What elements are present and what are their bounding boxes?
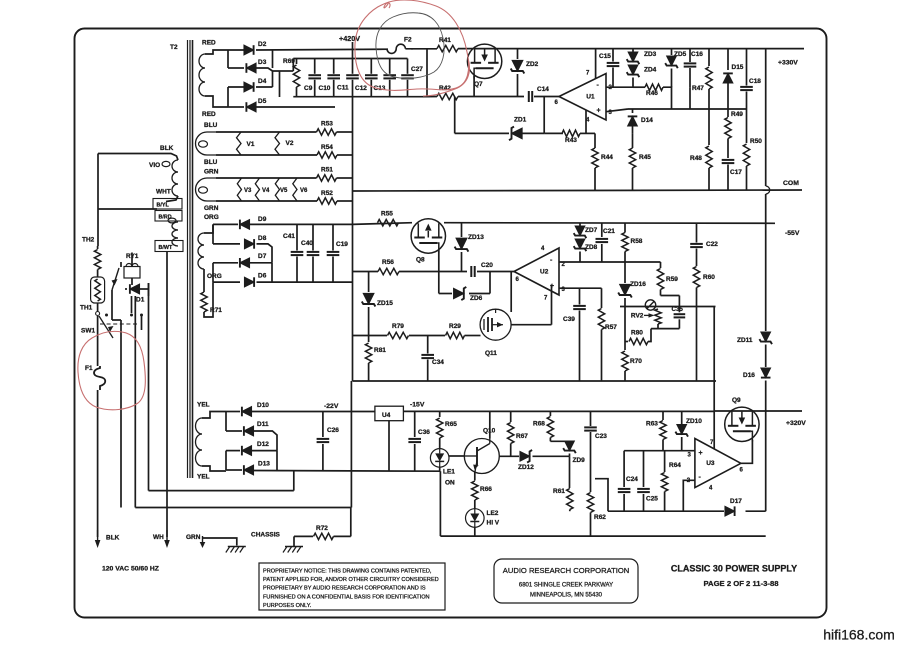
heater V6 bbox=[293, 178, 297, 201]
svg-text:R61: R61 bbox=[553, 488, 565, 495]
zener ZD6 loop bbox=[439, 272, 490, 294]
label C12 bbox=[355, 85, 367, 92]
svg-text:FURNISHED ON A CONFIDENTIAL BA: FURNISHED ON A CONFIDENTIAL BASIS FOR ID… bbox=[263, 594, 430, 600]
label C19 bbox=[336, 241, 348, 248]
svg-text:PROPRIETARY BY AUDIO RESEARCH: PROPRIETARY BY AUDIO RESEARCH CORPORATIO… bbox=[263, 586, 426, 592]
zener ZD8 bbox=[574, 239, 587, 262]
svg-text:D5: D5 bbox=[258, 98, 267, 105]
label V2 bbox=[286, 140, 294, 147]
op-amp U2 +- marks bbox=[550, 257, 554, 290]
label R50 bbox=[750, 138, 762, 145]
thermistor TH2 bbox=[94, 246, 100, 277]
label R69 bbox=[283, 58, 295, 65]
ground chassis 2 bbox=[283, 541, 303, 553]
label R68 bbox=[533, 421, 545, 428]
company addr2 bbox=[530, 593, 603, 599]
resistor R59 bbox=[657, 262, 663, 296]
wire RY1 contact col bbox=[132, 296, 142, 330]
resistor R43 bbox=[562, 130, 580, 136]
wire D8 to mid bus bbox=[257, 244, 273, 263]
capacitor C36 bbox=[408, 411, 421, 471]
svg-text:ORG: ORG bbox=[204, 214, 219, 221]
wire -15V rail bbox=[403, 410, 714, 412]
capacitor C41 bbox=[291, 224, 304, 282]
label V1 bbox=[247, 141, 255, 148]
label ZD13 bbox=[468, 234, 484, 241]
svg-text:R47: R47 bbox=[692, 85, 704, 92]
label R48 bbox=[690, 155, 702, 162]
svg-text:ZD15: ZD15 bbox=[377, 300, 393, 307]
resistor R72 bbox=[314, 533, 334, 539]
svg-text:120 VAC 50/60 HZ: 120 VAC 50/60 HZ bbox=[102, 566, 159, 573]
resistor R44 bbox=[592, 148, 598, 168]
wire LE1 down bbox=[439, 467, 441, 471]
svg-text:SW1: SW1 bbox=[81, 328, 95, 335]
svg-text:AUDIO RESEARCH CORPORATION: AUDIO RESEARCH CORPORATION bbox=[503, 566, 629, 575]
svg-text:C20: C20 bbox=[481, 262, 493, 269]
svg-text:ZD4: ZD4 bbox=[644, 67, 657, 74]
label B/YL box bbox=[153, 199, 182, 210]
svg-text:+330V: +330V bbox=[778, 60, 798, 67]
label ORG top bbox=[204, 214, 219, 221]
label C18 bbox=[749, 78, 761, 85]
label D3 bbox=[258, 59, 267, 66]
svg-text:U1: U1 bbox=[586, 94, 595, 101]
wire R61 jog bbox=[595, 479, 608, 512]
wire pin2 row bbox=[606, 86, 633, 88]
svg-text:ZD9: ZD9 bbox=[573, 457, 586, 464]
label C21 bbox=[603, 228, 615, 235]
label RV2 bbox=[631, 313, 644, 320]
svg-text:Q9: Q9 bbox=[732, 397, 741, 404]
wire F2 to R41 bbox=[411, 48, 437, 50]
MOSFET Q11 bbox=[480, 309, 511, 340]
svg-text:RV2: RV2 bbox=[631, 313, 644, 320]
label F1 bbox=[85, 365, 93, 372]
capacitor C17 bbox=[722, 160, 735, 190]
label Q10 bbox=[483, 428, 496, 435]
wire Q11 drain up to U2 apex node bbox=[510, 272, 512, 312]
wire D3 to right bus bbox=[256, 50, 280, 71]
svg-text:C25: C25 bbox=[646, 496, 658, 503]
wire main vertical bus bbox=[351, 97, 353, 537]
svg-text:R66: R66 bbox=[480, 486, 492, 493]
resistor R66 bbox=[472, 481, 478, 500]
transistor Q10 bbox=[464, 439, 499, 474]
company box bbox=[494, 559, 638, 603]
op-amp U2 bbox=[514, 246, 566, 302]
svg-text:R65: R65 bbox=[445, 421, 457, 428]
label R64 bbox=[669, 462, 681, 469]
label C27 bbox=[411, 66, 423, 73]
label C39 bbox=[563, 316, 575, 323]
svg-text:U3: U3 bbox=[706, 460, 715, 467]
wire R70 col top bbox=[624, 342, 626, 351]
wire D14 to R45 bbox=[632, 133, 634, 148]
resistor R63 bbox=[660, 411, 666, 450]
label C35 bbox=[672, 306, 684, 313]
svg-text:R80: R80 bbox=[631, 330, 643, 337]
wire BLK row bbox=[98, 154, 178, 161]
svg-text:ZD16: ZD16 bbox=[630, 281, 646, 288]
svg-text:CHASSIS: CHASSIS bbox=[251, 532, 281, 539]
label LE2 bbox=[487, 510, 499, 517]
svg-text:D4: D4 bbox=[258, 78, 267, 85]
resistor R51 bbox=[317, 175, 337, 181]
wire R29 to Q11 gate bbox=[465, 335, 481, 337]
wire Q7 source down bbox=[473, 76, 475, 97]
svg-text:+320V: +320V bbox=[786, 420, 806, 427]
wire C14 to U1 pin6 bbox=[534, 96, 559, 98]
label D14 bbox=[641, 117, 653, 124]
label R67 bbox=[516, 433, 528, 440]
svg-text:COM: COM bbox=[783, 180, 799, 187]
resistor R53 bbox=[317, 129, 337, 135]
label ORG lower bbox=[207, 273, 222, 280]
wire bank top rail bbox=[280, 59, 408, 72]
svg-text:VIO: VIO bbox=[149, 162, 160, 169]
label C14 bbox=[537, 86, 549, 93]
wire U1 pin7 up bbox=[595, 49, 597, 79]
capacitor C25 bbox=[637, 451, 650, 512]
label C22 bbox=[706, 241, 718, 248]
svg-text:R70: R70 bbox=[630, 358, 642, 365]
svg-text:ZD8: ZD8 bbox=[585, 244, 598, 251]
label ZD2 bbox=[526, 61, 539, 68]
proprietary notice box bbox=[259, 563, 445, 610]
svg-text:BLK: BLK bbox=[106, 535, 120, 542]
capacitor C9 bbox=[308, 59, 321, 97]
label C15 bbox=[599, 53, 611, 60]
label T2 bbox=[170, 44, 178, 51]
resistor R29 bbox=[446, 332, 465, 338]
label D7 bbox=[258, 253, 267, 260]
wire R56 row bbox=[353, 271, 379, 273]
svg-text:PURPOSES ONLY.: PURPOSES ONLY. bbox=[263, 603, 312, 609]
wire pin2 row bbox=[559, 261, 661, 263]
wire U4 ground lead bbox=[388, 421, 390, 472]
wire Q8 source down bbox=[438, 250, 440, 294]
wire left col 4 down bbox=[148, 289, 150, 491]
wire R41 to Q7/rail bbox=[458, 48, 804, 50]
label R41 bbox=[439, 37, 451, 44]
primary winding VIO-WHT bbox=[162, 160, 178, 196]
svg-text:T2: T2 bbox=[170, 44, 178, 51]
resistor R65 bbox=[437, 411, 443, 448]
label ZD8 bbox=[585, 244, 598, 251]
capacitor C40 bbox=[307, 224, 320, 282]
wire U3 output to Q9 bbox=[741, 440, 753, 463]
label C20 bbox=[481, 262, 493, 269]
resistor R69 bbox=[293, 59, 299, 97]
svg-text:R45: R45 bbox=[639, 154, 651, 161]
svg-text:R50: R50 bbox=[750, 138, 762, 145]
svg-text:C41: C41 bbox=[283, 233, 295, 240]
svg-text:R71: R71 bbox=[210, 307, 222, 314]
company addr1 bbox=[519, 583, 613, 589]
heater V2 bbox=[275, 132, 280, 155]
svg-text:PROPRIETARY NOTICE: THIS DRA: PROPRIETARY NOTICE: THIS DRAWING CONTAIN… bbox=[263, 569, 432, 575]
label R79 bbox=[392, 323, 404, 330]
MOSFET Q9 bbox=[725, 407, 759, 441]
label R43 bbox=[565, 137, 577, 144]
svg-text:D2: D2 bbox=[258, 41, 267, 48]
label C23 bbox=[595, 433, 607, 440]
capacitor C39 bbox=[573, 288, 586, 381]
LED LE1 bbox=[430, 449, 449, 468]
svg-text:ZD1: ZD1 bbox=[514, 117, 527, 124]
label Q9 bbox=[732, 397, 741, 404]
label R57 bbox=[605, 324, 617, 331]
wire left col 2 down bbox=[112, 262, 121, 508]
wire bottom long return bbox=[440, 535, 765, 537]
svg-text:ZD7: ZD7 bbox=[585, 227, 598, 234]
label R72 bbox=[316, 525, 328, 532]
wire Q9 right vert bbox=[765, 411, 767, 511]
wire R47 col to R48 bbox=[708, 109, 710, 145]
zener ZD1 bbox=[509, 127, 522, 141]
svg-text:D16: D16 bbox=[743, 372, 755, 379]
label D11 bbox=[257, 421, 269, 428]
wire +320V rail bbox=[714, 410, 802, 412]
svg-text:V3: V3 bbox=[244, 188, 252, 194]
svg-text:Q8: Q8 bbox=[416, 257, 425, 264]
svg-text:C23: C23 bbox=[595, 433, 607, 440]
svg-text:C14: C14 bbox=[537, 86, 549, 93]
SW1 dashed link bbox=[100, 323, 137, 325]
svg-text:C39: C39 bbox=[563, 316, 575, 323]
svg-text:R81: R81 bbox=[374, 347, 386, 354]
diode D13 bbox=[244, 465, 254, 475]
label C41 bbox=[283, 233, 295, 240]
label R71 bbox=[210, 307, 222, 314]
svg-text:D11: D11 bbox=[257, 421, 269, 428]
BLU winding loop bbox=[196, 132, 217, 155]
wire R45 to COM bbox=[632, 168, 634, 190]
diode D1 bbox=[125, 278, 149, 296]
svg-text:R60: R60 bbox=[703, 274, 715, 281]
svg-text:V1: V1 bbox=[247, 141, 255, 148]
wire D10 row bbox=[226, 411, 375, 413]
label R63 bbox=[646, 421, 658, 428]
wire ZD16 bottom row bbox=[620, 306, 716, 308]
svg-text:ZD2: ZD2 bbox=[526, 61, 539, 68]
capacitor C11 (on +420V bus) bbox=[346, 75, 359, 78]
wire D11 to mid bus bbox=[253, 431, 277, 451]
potentiometer RV2 bbox=[644, 300, 661, 329]
svg-text:RED: RED bbox=[202, 40, 216, 47]
svg-text:C11: C11 bbox=[337, 85, 349, 92]
svg-text:ZD6: ZD6 bbox=[470, 295, 483, 302]
resistor R67 bbox=[508, 411, 514, 456]
wire R54 to bus bbox=[337, 154, 353, 156]
wire Q11 right lead / U2 pin7 drop bbox=[511, 285, 552, 325]
wire D10-D11 link bbox=[226, 412, 242, 432]
RED winding (T2 secondary) bbox=[199, 50, 228, 107]
relay RY1 contact arm bbox=[112, 268, 120, 295]
resistor R57 bbox=[598, 309, 604, 382]
label R58 bbox=[631, 238, 643, 245]
svg-text:C21: C21 bbox=[603, 228, 615, 235]
wire WHT row bbox=[98, 154, 178, 247]
title CLASSIC 30 POWER SUPPLY bbox=[671, 564, 797, 574]
wire Q10 emitter down bbox=[474, 473, 476, 481]
label R66 bbox=[480, 486, 492, 493]
wire R51 to bus bbox=[337, 177, 353, 179]
label CHASSIS bbox=[251, 532, 281, 539]
svg-text:R48: R48 bbox=[690, 155, 702, 162]
svg-text:C26: C26 bbox=[327, 427, 339, 434]
label ZD10 bbox=[686, 418, 702, 425]
label ZD16 bbox=[630, 281, 646, 288]
svg-text:C18: C18 bbox=[749, 78, 761, 85]
svg-text:V6: V6 bbox=[300, 188, 308, 194]
svg-text:LE2: LE2 bbox=[487, 510, 499, 517]
primary winding B/RD-B/WT bbox=[168, 218, 178, 246]
wire R42 to C14 bbox=[458, 96, 524, 98]
capacitor C23 bbox=[584, 411, 597, 492]
label BLU top bbox=[204, 122, 218, 129]
wire pin3/D14 row bbox=[606, 109, 747, 112]
wire R57 col bbox=[580, 288, 602, 308]
svg-text:WH: WH bbox=[153, 534, 164, 541]
svg-text:MINNEAPOLIS, MN 55430: MINNEAPOLIS, MN 55430 bbox=[530, 593, 603, 599]
resistor R70 bbox=[622, 351, 628, 381]
label R60 bbox=[703, 274, 715, 281]
label ZD11 bbox=[737, 337, 753, 344]
label -55V bbox=[785, 230, 800, 237]
svg-text:R69: R69 bbox=[283, 58, 295, 65]
wire R50 to COM bbox=[746, 166, 748, 190]
label Q7 bbox=[474, 81, 483, 88]
svg-text:BLU: BLU bbox=[204, 122, 218, 129]
switch SW1 blade bbox=[99, 316, 114, 338]
wire ZD1 row up to C14 row bbox=[543, 97, 545, 134]
label R61 bbox=[553, 488, 565, 495]
arrow WH bbox=[164, 530, 170, 548]
wire R58 col to ZD16 bbox=[624, 262, 626, 283]
svg-text:D15: D15 bbox=[732, 64, 744, 71]
svg-text:R51: R51 bbox=[321, 167, 333, 174]
label LE1 bbox=[443, 469, 455, 476]
resistor R79 bbox=[388, 332, 409, 338]
wire gnd2 to R72 bbox=[294, 536, 313, 541]
svg-text:R56: R56 bbox=[382, 259, 394, 266]
label R56 bbox=[382, 259, 394, 266]
svg-text:C9: C9 bbox=[304, 85, 313, 92]
svg-text:D1: D1 bbox=[136, 297, 145, 304]
resistor R80 bbox=[625, 307, 651, 345]
label SW1 bbox=[81, 328, 95, 335]
svg-text:R54: R54 bbox=[321, 144, 333, 151]
svg-text:C15: C15 bbox=[599, 53, 611, 60]
svg-text:B/RD: B/RD bbox=[159, 215, 172, 221]
wire R72 to bus bbox=[334, 535, 351, 537]
resistor R47 bbox=[706, 49, 712, 109]
wire D9 row bbox=[213, 223, 353, 225]
op-amp U1 bbox=[555, 71, 613, 124]
label WH bbox=[153, 534, 164, 541]
svg-text:D6: D6 bbox=[258, 273, 267, 280]
svg-text:R72: R72 bbox=[316, 525, 328, 532]
wire R68 to ZD9 bbox=[550, 440, 569, 442]
op-amp U1 +- marks bbox=[597, 82, 601, 115]
company name bbox=[503, 566, 629, 575]
svg-text:ZD5: ZD5 bbox=[674, 51, 687, 58]
svg-text:R58: R58 bbox=[631, 238, 643, 245]
label D6 bbox=[258, 273, 267, 280]
wire Q10 base bbox=[449, 455, 464, 457]
svg-text:B/WT: B/WT bbox=[159, 245, 173, 251]
resistor R61 bbox=[567, 489, 573, 512]
op-amp U3 +- marks bbox=[699, 450, 703, 481]
label D1 bbox=[136, 297, 145, 304]
label ZD12 bbox=[518, 464, 534, 471]
label ZD3 bbox=[644, 51, 657, 58]
label R54 bbox=[321, 144, 333, 151]
svg-text:R29: R29 bbox=[449, 323, 461, 330]
svg-text:R44: R44 bbox=[601, 154, 613, 161]
wire D15 col to R49 bbox=[727, 109, 729, 117]
wire R42row-ZD1row link bbox=[454, 97, 456, 134]
diode D6 bbox=[245, 277, 255, 287]
zener ZD12 bbox=[520, 450, 532, 463]
resistor R56 bbox=[378, 268, 399, 274]
wire R66 to LE2 bbox=[474, 500, 476, 509]
label C40 bbox=[301, 240, 313, 247]
wire D4-D5 left link bbox=[228, 87, 244, 107]
wire D13 row / return bbox=[253, 451, 440, 472]
label V5 bbox=[280, 188, 288, 194]
resistor R41 bbox=[437, 45, 458, 51]
label +330V bbox=[778, 60, 798, 67]
transformer T2 core bbox=[188, 40, 193, 478]
wire C18 col to R50 bbox=[746, 109, 748, 143]
resistor R49 bbox=[725, 118, 731, 139]
svg-text:C24: C24 bbox=[626, 476, 638, 483]
label R53 bbox=[321, 121, 333, 128]
wire R48 to COM bbox=[708, 168, 710, 190]
YEL winding bbox=[196, 412, 227, 472]
capacitor C21 bbox=[596, 223, 609, 262]
wire pin3 row bbox=[559, 287, 580, 289]
label R59 bbox=[666, 276, 678, 283]
wire D12-D13 link bbox=[226, 451, 242, 470]
label R42 bbox=[439, 85, 451, 92]
label V3 bbox=[244, 188, 252, 194]
svg-text:F1: F1 bbox=[85, 365, 93, 372]
svg-text:C34: C34 bbox=[432, 359, 444, 366]
op-amp U3 bbox=[687, 439, 744, 492]
label C10 bbox=[319, 85, 331, 92]
MOSFET Q7 bbox=[467, 44, 501, 78]
wire D7-D6 left link bbox=[213, 263, 240, 282]
label D12 bbox=[257, 441, 269, 448]
wire D4 row bbox=[228, 71, 273, 87]
label R55 bbox=[381, 211, 393, 218]
capacitor C19 bbox=[327, 224, 340, 282]
wire R46 row bbox=[633, 86, 645, 88]
thermistor TH1 box bbox=[91, 277, 105, 303]
wire pin3 feed row bbox=[624, 450, 695, 452]
wire mid-section bottom rail bbox=[353, 380, 717, 382]
zener ZD5 bbox=[665, 49, 678, 88]
proprietary notice text bbox=[263, 569, 439, 609]
svg-text:C10: C10 bbox=[319, 85, 331, 92]
label ZD9 bbox=[573, 457, 586, 464]
label ZD6 bbox=[470, 295, 483, 302]
svg-text:ZD10: ZD10 bbox=[686, 418, 702, 425]
